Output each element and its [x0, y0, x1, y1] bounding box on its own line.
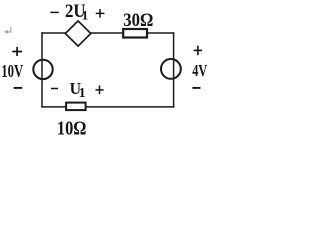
svg-text:30Ω: 30Ω [123, 11, 153, 31]
paragraph mark artifact [6, 27, 11, 32]
wire: left side [41, 32, 43, 107]
svg-text:10Ω: 10Ω [57, 119, 87, 139]
resistor 10ohm box [66, 103, 86, 111]
label: plus sign of 4V [194, 49, 203, 51]
voltage source 10V circle [33, 60, 52, 79]
svg-text:4V: 4V [192, 61, 208, 80]
svg-text:1: 1 [82, 7, 89, 22]
label: plus sign of 10V [12, 51, 22, 53]
svg-text:1: 1 [79, 86, 86, 101]
controlled source diamond 2U1 [65, 21, 91, 46]
wire: bottom side [41, 106, 174, 108]
label: plus sign of 2U1 [96, 12, 105, 14]
voltage source 4V circle [161, 59, 181, 79]
label: minus sign of U1 [51, 88, 58, 90]
resistor 30ohm box [123, 29, 147, 38]
label: minus sign of 2U1 [50, 11, 58, 13]
wire: right side [173, 32, 175, 107]
label: plus sign of U1 [96, 89, 104, 91]
label: minus sign of 4V [192, 87, 200, 89]
svg-text:10V: 10V [1, 61, 23, 81]
wire: top side [41, 32, 174, 34]
label: minus sign of 10V [14, 87, 23, 89]
